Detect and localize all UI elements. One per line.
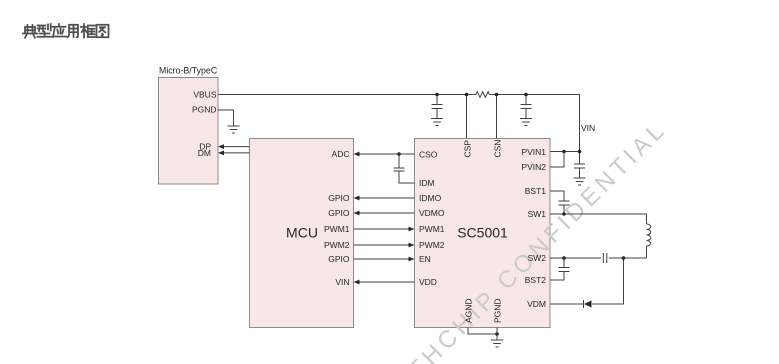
svg-text:ADC: ADC xyxy=(332,149,350,159)
wire DP xyxy=(222,146,250,148)
wire CSO to ADC xyxy=(359,153,415,155)
svg-text:VDMO: VDMO xyxy=(419,208,445,218)
应 xyxy=(53,24,67,37)
wire PVIN2 up to PVIN1 xyxy=(550,152,564,168)
wire VBUS rail xyxy=(218,94,476,96)
node junction SW2/D1 xyxy=(622,256,626,260)
svg-text:PVIN1: PVIN1 xyxy=(521,147,546,157)
node junction SW2/C5 xyxy=(562,256,566,260)
svg-text:VDD: VDD xyxy=(419,277,437,287)
svg-text:EN: EN xyxy=(419,254,431,264)
wire CSN xyxy=(496,95,498,139)
wire VDM to D1 xyxy=(550,303,584,305)
node junction PVIN at VIN/C3 xyxy=(578,150,582,154)
capacitor C7 series xyxy=(603,253,607,263)
wire BST2 xyxy=(550,272,564,281)
wire GPIO to EN xyxy=(354,258,411,260)
wire PGND xyxy=(496,328,498,341)
wire DM xyxy=(222,152,250,154)
wire VDMO to GPIO xyxy=(359,212,415,214)
svg-text:GPIO: GPIO xyxy=(328,208,350,218)
svg-text:Micro-B/TypeC: Micro-B/TypeC xyxy=(159,66,218,76)
用 xyxy=(68,25,79,38)
node junction SW1/C4 xyxy=(562,212,566,216)
svg-text:AGND: AGND xyxy=(463,298,473,323)
arrowhead into DM xyxy=(218,151,224,156)
connector J1 Micro-B/TypeC box xyxy=(159,66,219,185)
svg-text:VBUS: VBUS xyxy=(193,90,216,100)
node junction PVIN at PVIN2 xyxy=(562,150,566,154)
wire SW1 xyxy=(550,214,647,224)
svg-text:CSP: CSP xyxy=(462,140,472,158)
svg-text:PWM2: PWM2 xyxy=(419,240,445,250)
node junction on VBUS rail at C2 xyxy=(524,93,528,97)
svg-text:PVIN2: PVIN2 xyxy=(521,162,546,172)
wire SW2 left of C7 xyxy=(550,257,601,259)
svg-text:IDMO: IDMO xyxy=(419,193,442,203)
node junction on VBUS rail at CSN xyxy=(495,93,499,97)
arrowhead into GPIO from IDMO xyxy=(354,196,360,201)
capacitor C1 xyxy=(432,95,443,119)
op chip U1 SC5001 box xyxy=(415,139,551,328)
wire VDD to VIN xyxy=(359,281,415,283)
arrowhead into PWM1 xyxy=(409,227,415,232)
wire BST1 xyxy=(550,191,564,201)
node junction CSO/C6 xyxy=(397,152,401,156)
wire CSP xyxy=(466,95,468,139)
capacitor C6 CSO-IDM xyxy=(394,154,415,183)
ground under C1 xyxy=(431,119,443,126)
svg-text:GPIO: GPIO xyxy=(328,254,350,264)
svg-text:CSO: CSO xyxy=(419,150,438,160)
node junction on VBUS rail at CSP xyxy=(465,93,469,97)
图 xyxy=(97,25,109,38)
svg-text:SC5001: SC5001 xyxy=(457,225,508,241)
wire rail right of R1 to VIN corner xyxy=(489,95,579,152)
svg-text:GPIO: GPIO xyxy=(328,193,350,203)
svg-text:PWM2: PWM2 xyxy=(324,240,350,250)
MCU U2 box xyxy=(250,139,354,328)
diode D1 triangle xyxy=(584,301,592,308)
框 xyxy=(81,24,95,38)
ground under J1 PGND xyxy=(228,126,240,133)
arrowhead into DP xyxy=(218,144,224,149)
型 xyxy=(38,24,52,37)
svg-text:VIN: VIN xyxy=(581,123,595,133)
capacitor C2 xyxy=(521,95,532,119)
title 典型应用框图 (drawn strokes) xyxy=(23,24,109,38)
node junction on VBUS rail at C1 xyxy=(435,93,439,97)
svg-text:PWM1: PWM1 xyxy=(419,224,445,234)
svg-text:SW2: SW2 xyxy=(528,253,547,263)
wire PWM1 xyxy=(354,228,411,230)
capacitor C4 BST1 xyxy=(559,201,570,214)
svg-text:PWM1: PWM1 xyxy=(324,224,350,234)
arrowhead into EN xyxy=(409,257,415,262)
wire PGND of J1 xyxy=(218,110,234,126)
capacitor C5 BST2 xyxy=(559,258,570,272)
svg-text:VDM: VDM xyxy=(527,299,546,309)
wire AGND xyxy=(468,328,497,335)
ground under PGND xyxy=(491,340,503,347)
node junction AGND/PGND xyxy=(495,332,499,336)
svg-text:IDM: IDM xyxy=(419,178,435,188)
watermark CONFIDENTIAL xyxy=(357,115,672,364)
ground under C3 xyxy=(574,178,586,185)
wire IDMO to GPIO xyxy=(359,197,415,199)
capacitor C3 xyxy=(574,152,585,179)
arrowhead into GPIO from VDMO xyxy=(354,211,360,216)
典 xyxy=(23,25,37,38)
wire L1 bottom to SW2 line xyxy=(646,246,648,258)
arrowhead into ADC xyxy=(354,152,360,157)
wire PWM2 xyxy=(354,244,411,246)
arrowhead into PWM2 xyxy=(409,243,415,248)
svg-text:PGND: PGND xyxy=(492,298,502,323)
ground under C2 xyxy=(520,119,532,126)
svg-text:VIN: VIN xyxy=(335,277,349,287)
svg-text:DM: DM xyxy=(198,148,211,158)
svg-text:CSN: CSN xyxy=(492,140,502,158)
wire SW2 right of C7 xyxy=(609,257,647,259)
svg-text:BST1: BST1 xyxy=(525,186,547,196)
svg-text:BST2: BST2 xyxy=(525,275,547,285)
svg-text:PGND: PGND xyxy=(192,104,217,114)
wire D1 to SW2 node xyxy=(592,258,624,304)
resistor R1 xyxy=(476,92,489,98)
diode D1 cathode bar xyxy=(583,300,585,308)
wire PVIN1 xyxy=(550,151,580,153)
arrowhead into VIN from VDD xyxy=(354,280,360,285)
svg-text:MCU: MCU xyxy=(286,225,318,241)
svg-text:SW1: SW1 xyxy=(528,209,547,219)
inductor L1 xyxy=(647,224,651,246)
